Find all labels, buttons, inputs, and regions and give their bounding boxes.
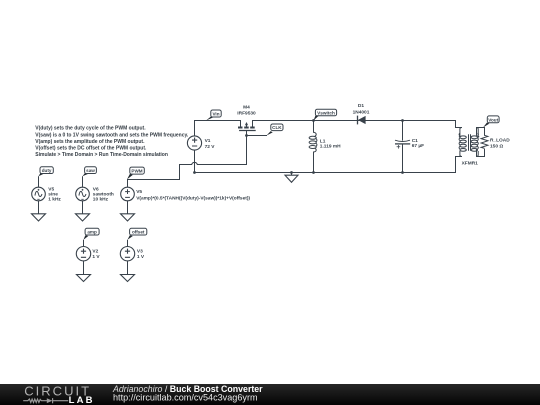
svg-text:XFMR1: XFMR1 — [462, 160, 479, 166]
svg-text:67 µF: 67 µF — [412, 143, 424, 149]
svg-text:PWM: PWM — [131, 169, 142, 174]
svg-text:V(amp) sets the amplitude of t: V(amp) sets the amplitude of the PWM out… — [35, 139, 145, 145]
svg-text:V2: V2 — [92, 249, 98, 255]
svg-text:R_LOAD: R_LOAD — [490, 137, 510, 143]
svg-text:Vout: Vout — [488, 117, 498, 122]
svg-text:10 kHz: 10 kHz — [93, 196, 109, 202]
svg-text:V(duty) sets the duty cycle of: V(duty) sets the duty cycle of the PWM o… — [35, 125, 146, 131]
svg-text:1N4001: 1N4001 — [353, 109, 370, 115]
svg-text:L1: L1 — [320, 138, 326, 144]
svg-text:D1: D1 — [358, 103, 364, 109]
svg-text:IRF9530: IRF9530 — [237, 111, 256, 117]
svg-text:M4: M4 — [243, 104, 250, 110]
svg-text:V(saw) is a 0 to 1V swing sawt: V(saw) is a 0 to 1V swing sawtooth and s… — [35, 132, 189, 138]
svg-text:V1: V1 — [205, 138, 211, 144]
svg-text:Simulate > Time Domain > Run T: Simulate > Time Domain > Run Time-Domain… — [35, 152, 168, 158]
svg-text:offset: offset — [132, 230, 145, 235]
svg-text:Vswitch: Vswitch — [317, 110, 335, 115]
svg-text:1.119 mH: 1.119 mH — [320, 143, 341, 149]
svg-text:CLK: CLK — [272, 125, 282, 130]
svg-text:duty: duty — [42, 168, 52, 173]
svg-text:Vin: Vin — [212, 112, 219, 117]
svg-text:C1: C1 — [412, 138, 418, 144]
svg-text:http://circuitlab.com/cv54c3va: http://circuitlab.com/cv54c3vag6yrm — [113, 392, 258, 402]
svg-text:1 V: 1 V — [92, 254, 100, 260]
svg-text:amp: amp — [87, 230, 97, 235]
svg-text:V(amp)*(0.5*(TANH((V(duty)-V(s: V(amp)*(0.5*(TANH((V(duty)-V(saw))*1k)+V… — [136, 196, 250, 202]
svg-text:V(offset) sets the DC offset o: V(offset) sets the DC offset of the PWM … — [35, 146, 147, 152]
svg-text:V3: V3 — [137, 249, 143, 255]
svg-text:saw: saw — [86, 168, 95, 173]
svg-text:LAB: LAB — [69, 395, 95, 405]
svg-text:V5: V5 — [136, 189, 142, 195]
svg-text:150 Ω: 150 Ω — [490, 144, 503, 150]
svg-text:1 kHz: 1 kHz — [48, 196, 61, 202]
svg-text:72 V: 72 V — [205, 144, 216, 150]
svg-text:1 V: 1 V — [137, 254, 145, 260]
